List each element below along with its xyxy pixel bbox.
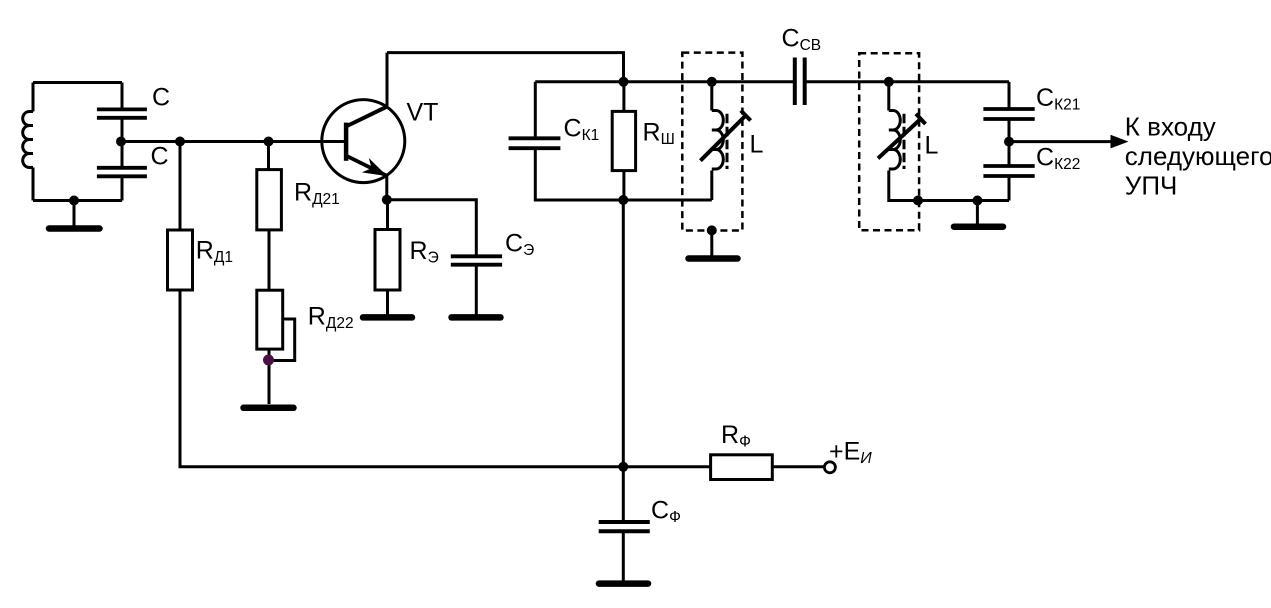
wire tank right top	[121, 83, 124, 110]
node supply rail	[618, 462, 628, 472]
ground shield1 stub	[710, 230, 713, 255]
node coil1 top	[707, 77, 717, 87]
svg-text:RЭ: RЭ	[410, 237, 439, 267]
wire R_D22 bottom	[268, 349, 271, 404]
wire C_K1 top branch	[534, 82, 537, 139]
svg-text:+ЕИ: +ЕИ	[829, 438, 872, 468]
svg-text:RД22: RД22	[308, 303, 354, 333]
capacitor C_K21	[983, 109, 1034, 119]
wire mid rail right segment	[805, 80, 1009, 83]
svg-text:L: L	[925, 132, 939, 160]
wire coil2 top drop	[887, 82, 890, 111]
wire coil1 bottom	[710, 171, 713, 201]
wire mid rail left segment	[535, 80, 795, 83]
ground tank2 stub	[976, 201, 979, 225]
svg-text:RФ: RФ	[721, 421, 751, 451]
svg-text:К входу: К входу	[1125, 111, 1216, 141]
wire main vertical to supply rail	[622, 200, 625, 467]
input tank circuit top wire	[33, 81, 122, 84]
wire emitter to C_E	[387, 200, 477, 257]
wire R_D22 tap	[269, 319, 295, 361]
ground shield1 bar	[689, 255, 738, 262]
wire C_F top	[622, 467, 625, 522]
resistor R_D22	[257, 290, 283, 349]
inductor L1 coil	[712, 111, 724, 170]
svg-text:RШ: RШ	[643, 119, 675, 149]
resistor R_D1	[168, 230, 193, 290]
node output	[1004, 137, 1014, 147]
ground C_E bar	[452, 314, 501, 321]
capacitor C_K1	[509, 138, 561, 148]
wire C_E bottom	[475, 265, 478, 315]
terminal +E circle	[824, 462, 835, 473]
svg-text:CЭ: CЭ	[505, 230, 534, 260]
svg-text:CК1: CК1	[564, 115, 600, 145]
node collector rail	[619, 77, 629, 87]
node tank mid	[116, 137, 126, 147]
node tank2 ground junction	[972, 196, 982, 206]
node tank bottom	[69, 196, 79, 206]
node shield1 ground	[707, 225, 717, 235]
shield box 1 (dashed)	[682, 53, 742, 231]
svg-text:УПЧ: УПЧ	[1125, 171, 1178, 201]
svg-text:CК21: CК21	[1036, 84, 1080, 114]
wire R_Sh bottom	[622, 171, 625, 200]
wire coil2 bottom	[889, 171, 1009, 201]
wire C_K22 bottom	[1008, 176, 1011, 201]
inductor L2 core dashed line	[903, 114, 906, 169]
input tank left vertical wire	[32, 83, 35, 112]
wire coil bottom to tank bottom	[32, 168, 35, 201]
resistor R_Sh	[612, 111, 635, 170]
inductor L1 tuning arrow	[700, 111, 750, 161]
wire R_F to terminal	[772, 465, 823, 468]
svg-text:VT: VT	[407, 99, 439, 127]
resistor R_F	[711, 455, 773, 480]
capacitor C_F	[599, 522, 650, 531]
wire node to R_D21	[267, 142, 270, 170]
transistor VT	[322, 100, 405, 183]
node emitter	[382, 195, 392, 205]
capacitor C_SV	[795, 58, 805, 106]
svg-text:L: L	[750, 131, 764, 159]
capacitor C top plate pair	[97, 109, 147, 117]
svg-text:RД21: RД21	[294, 179, 340, 209]
shield box 2 (dashed)	[859, 53, 919, 230]
wire C_F bottom	[622, 531, 625, 581]
wire emitter to R_E	[386, 200, 389, 230]
ground tank2 bar	[954, 223, 1003, 230]
inductor L1 core dashed line	[726, 114, 729, 169]
wire R_D1 to supply rail	[180, 290, 711, 467]
inductor input tank coil	[23, 112, 33, 168]
inductor L2 tuning arrow	[878, 114, 926, 159]
wire output arrow shaft	[1009, 140, 1118, 143]
wire cap to tank bottom	[121, 176, 124, 200]
wire between capacitors	[121, 118, 124, 168]
wire top rail collector to node	[387, 53, 624, 82]
ground R_D22 bar	[244, 405, 294, 412]
svg-text:RД1: RД1	[196, 237, 233, 267]
wire node to R_D1	[179, 142, 182, 231]
svg-text:CФ: CФ	[651, 497, 681, 527]
svg-text:CСВ: CСВ	[782, 25, 822, 55]
ground R_E bar	[363, 314, 412, 321]
svg-text:C: C	[151, 143, 169, 171]
resistor R_D21	[257, 170, 282, 230]
node coil2 top	[884, 77, 894, 87]
ground C_F bar	[599, 580, 648, 587]
wire emitter down	[385, 176, 388, 200]
ground tank1 stub	[73, 201, 76, 227]
wire collector up	[386, 53, 389, 106]
wire C_K21 to node	[1008, 119, 1011, 166]
node bottom rail	[618, 195, 628, 205]
node R_D22 tap junction (purple)	[263, 355, 274, 366]
wire R_D21 to R_D22	[268, 230, 271, 290]
capacitor C_K22	[983, 166, 1034, 176]
node base R_D1	[175, 137, 185, 147]
input tank bottom wire	[33, 199, 122, 202]
node shield2 bottom wire	[913, 196, 923, 206]
svg-text:CК22: CК22	[1036, 144, 1080, 174]
ground tank1 bar	[49, 225, 100, 232]
wire R_Sh top	[622, 82, 625, 112]
wire base rail	[122, 140, 344, 143]
output arrowhead	[1111, 135, 1129, 149]
resistor R_E	[375, 230, 400, 291]
node base R_D21	[264, 137, 274, 147]
wire coil1 top drop	[710, 82, 713, 111]
wire R_E bottom	[386, 290, 389, 315]
wire C_K21 top drop	[1008, 82, 1011, 109]
capacitor C_E	[451, 256, 502, 264]
svg-text:следующего: следующего	[1125, 141, 1271, 171]
inductor L2 coil	[889, 111, 901, 170]
wire C_K1 bottom branch	[535, 148, 712, 200]
capacitor C bottom plate pair	[97, 168, 147, 177]
svg-text:C: C	[152, 84, 170, 112]
